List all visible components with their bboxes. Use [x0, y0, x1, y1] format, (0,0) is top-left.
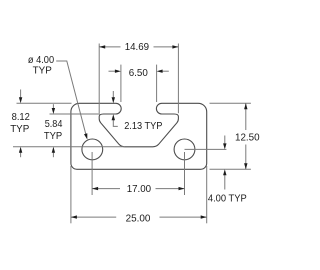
dim 2.13 bottom arrow with leader	[113, 119, 118, 126]
dim 8.12 top extension (top edge extended left)	[17, 102, 72, 104]
svg-text:8.12: 8.12	[12, 111, 30, 123]
dim 12.50 extension lines	[210, 103, 251, 169]
dim 6.50 extension lines	[121, 65, 157, 102]
svg-text:5.84: 5.84	[45, 118, 63, 130]
dim 8.12 top arrow	[20, 90, 22, 99]
dim 25.00 arrows	[71, 215, 207, 218]
svg-text:6.50: 6.50	[129, 67, 148, 79]
dim 4.00 top arrow	[224, 136, 226, 145]
dim 25.00 extension lines	[71, 166, 207, 223]
svg-text:TYP: TYP	[44, 130, 62, 142]
dim 4.00 bottom arrow	[224, 174, 226, 189]
hole right	[174, 139, 195, 160]
svg-text:2.13 TYP: 2.13 TYP	[124, 120, 162, 132]
svg-text:TYP: TYP	[33, 64, 52, 76]
dim 25.00 dimension line	[71, 216, 207, 218]
dim 6.50 outside arrow tails	[109, 70, 169, 72]
dim 8.12 bottom arrow	[20, 152, 22, 157]
svg-text:14.69: 14.69	[125, 41, 150, 53]
profile outline	[71, 103, 207, 169]
dim 5.84 top extension (ledge extended left)	[50, 113, 101, 115]
dim 2.13 top arrow (points down on top edge)	[112, 91, 114, 99]
dim 4.00 hole centerline extension	[185, 148, 227, 150]
dim 5.84 bottom arrow	[52, 152, 54, 157]
dim 5.84 top arrow	[52, 104, 54, 109]
dim 14.69 extension lines	[99, 44, 178, 114]
dim 14.69 arrows	[99, 45, 178, 48]
dim 8.12 / 5.84 bottom extension (slot bottom extended left)	[13, 146, 125, 148]
leader dia 4.00 line	[56, 61, 86, 135]
svg-text:25.00: 25.00	[126, 213, 151, 225]
svg-text:4.00 TYP: 4.00 TYP	[208, 192, 247, 204]
dim 12.50 dimension line	[245, 103, 247, 169]
svg-text:17.00: 17.00	[127, 183, 152, 195]
hole left	[82, 139, 103, 160]
dim 14.69 dimension line	[99, 46, 178, 48]
dim 17.00 extension lines (hole centers down)	[92, 152, 184, 195]
svg-text:TYP: TYP	[10, 123, 29, 135]
dim 17.00 arrows	[92, 187, 184, 190]
svg-text:12.50: 12.50	[235, 132, 260, 144]
dim 17.00 dimension line	[92, 188, 184, 190]
leader dia 4.00 arrow	[84, 133, 87, 139]
dim 12.50 arrows	[244, 103, 247, 169]
dim 6.50 arrows	[115, 70, 163, 73]
